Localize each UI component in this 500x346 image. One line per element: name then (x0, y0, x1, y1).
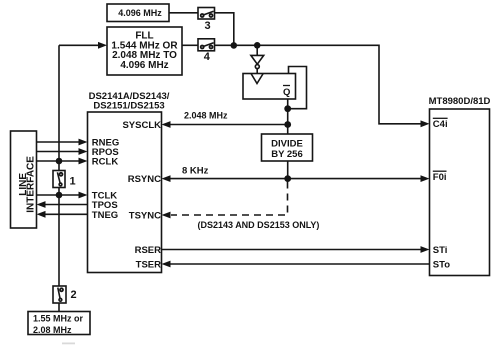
pin label F0i (active low) (433, 171, 447, 183)
wire: switch 4 output across top to C4i input (215, 45, 430, 127)
wire: Q-bar output down to divider (287, 99, 289, 134)
svg-text:1: 1 (70, 175, 76, 187)
svg-text:BY 256: BY 256 (271, 149, 303, 160)
label DS2141A/DS2143/ DS2151/DS2153 (89, 91, 170, 112)
wire: switch 2 to reference box (58, 303, 60, 312)
svg-text:RCLK: RCLK (92, 157, 119, 168)
wire: feedback loop Q-bar to D input (288, 67, 307, 109)
svg-text:8 KHz: 8 KHz (182, 166, 209, 177)
wire: tap down to inverter (256, 45, 258, 55)
oscillator block 4.096 MHz (107, 4, 169, 22)
svg-text:TNEG: TNEG (92, 210, 118, 221)
svg-text:TSER: TSER (136, 259, 161, 270)
svg-text:(DS2143 AND DS2153 ONLY): (DS2143 AND DS2153 ONLY) (198, 220, 320, 230)
wire: TPOS (37, 201, 88, 208)
block LINE INTERFACE (11, 131, 37, 228)
svg-text:RSYNC: RSYNC (128, 174, 161, 185)
wire: switch 3 output down to top net (215, 13, 234, 46)
wire: FLL output to switch 4 (182, 44, 198, 46)
block MT8980D/81D (429, 96, 491, 276)
wire: RSER to STi (162, 246, 430, 253)
wire: RCLK (37, 158, 88, 165)
switch 3 (198, 8, 215, 32)
wire: clock net vertical (FLL input to switch 1) (58, 45, 60, 170)
wire: RNEG (37, 139, 88, 146)
block DS2141A/DS2143/DS2151/DS2153 (88, 112, 162, 273)
wire: 8 KHz RSYNC / F0i line (162, 175, 430, 182)
svg-text:STi: STi (433, 245, 448, 256)
junction: feedback tap on Q-bar line (284, 105, 291, 112)
inverter U1 (251, 55, 264, 68)
svg-text:Q: Q (283, 87, 290, 98)
faint scan artifact (62, 343, 75, 345)
junction: SYSCLK tap on Q-bar line (284, 121, 291, 128)
switch 1 (53, 171, 76, 188)
junction: inverter tap on top net (254, 42, 261, 49)
switch 2 (53, 286, 77, 303)
svg-text:MT8980D/81D: MT8980D/81D (429, 96, 491, 107)
wire: divider output (287, 161, 289, 179)
svg-text:INTERFACE: INTERFACE (26, 156, 37, 213)
wire: 4.096 MHz box to switch 3 (169, 12, 198, 14)
wire: clock net to FLL input (59, 42, 107, 49)
wire: clock net vertical (switch 1 to switch 2) (58, 188, 60, 287)
junction: switch 3 / switch 4 net (231, 42, 238, 49)
svg-text:3: 3 (204, 20, 210, 32)
svg-text:2.048 MHz: 2.048 MHz (184, 111, 228, 121)
wire: RPOS (37, 148, 88, 155)
svg-text:4.096 MHz: 4.096 MHz (120, 60, 168, 71)
wire: inverter to flip-flop clock input (256, 69, 258, 74)
wire: 2.048 MHz SYSCLK into DS block (162, 121, 288, 128)
switch 4 (198, 39, 215, 63)
svg-text:C4i: C4i (433, 119, 448, 130)
svg-text:SYSCLK: SYSCLK (122, 120, 161, 131)
wire: STo to TSER (162, 261, 430, 268)
junction: TCLK tap to clock net (56, 192, 63, 199)
svg-text:F0i: F0i (433, 172, 447, 183)
svg-text:1.55 MHz or: 1.55 MHz or (33, 313, 84, 323)
flip-flop U2 with Q-bar output (243, 74, 296, 100)
wire: TCLK (37, 192, 88, 199)
svg-text:STo: STo (433, 259, 450, 270)
pin label C4i (active low) (433, 118, 448, 130)
wire: dashed TSYNC line (162, 182, 288, 219)
svg-text:DS2151/DS2153: DS2151/DS2153 (93, 101, 164, 112)
block 1.55 MHz or 2.08 MHz (28, 312, 90, 335)
svg-text:4: 4 (204, 51, 211, 63)
svg-text:RSER: RSER (135, 245, 162, 256)
svg-text:2.08 MHz: 2.08 MHz (33, 325, 72, 335)
wire: TNEG (37, 211, 88, 218)
svg-text:DIVIDE: DIVIDE (271, 138, 303, 149)
svg-text:2: 2 (71, 289, 77, 301)
junction: 8 KHz tap (284, 175, 291, 182)
block DIVIDE BY 256 (262, 134, 313, 161)
svg-text:4.096 MHz: 4.096 MHz (118, 8, 162, 18)
svg-text:TSYNC: TSYNC (129, 210, 161, 221)
block FLL (107, 27, 182, 75)
junction: RCLK tap to clock net (56, 158, 63, 165)
